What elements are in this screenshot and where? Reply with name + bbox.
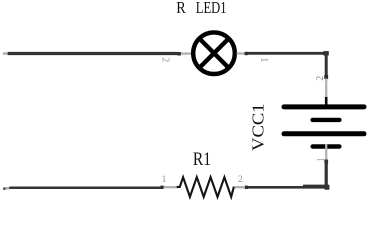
- battery short plate 2: [313, 144, 340, 148]
- svg-text:VCC1: VCC1: [249, 103, 268, 151]
- wire endpoint blob at lamp pin 2: [177, 52, 181, 56]
- wire endpoint blob at battery pin 1: [324, 160, 328, 164]
- resistor R1 pin 2 stub: [233, 186, 246, 188]
- svg-text:2: 2: [315, 76, 326, 81]
- battery VCC1 long plate 1: [284, 104, 364, 109]
- wire: bottom net, right horizontal segment: [247, 186, 328, 189]
- lamp X stroke B: [199, 39, 228, 68]
- wire: vertical down to battery plus: [325, 53, 328, 79]
- lamp pin 2 stub: [181, 52, 192, 54]
- wire: top net, left horizontal segment: [8, 52, 178, 55]
- wire endpoint blob at battery pin 2: [324, 75, 328, 79]
- wire: bottom net, left end gray stub: [5, 187, 10, 190]
- svg-text:2: 2: [238, 175, 243, 185]
- battery short plate 1: [313, 118, 340, 122]
- resistor R1 zigzag body: [177, 177, 234, 197]
- wire endpoint blob at resistor pin 1: [160, 186, 163, 189]
- battery long plate 2: [284, 131, 364, 136]
- lamp X stroke A: [199, 39, 228, 68]
- battery pin 1 stub: [325, 144, 327, 160]
- junction: bottom-right corner: [325, 185, 330, 190]
- wire endpoint blob at resistor pin 2: [245, 186, 248, 189]
- resistor R1 pin 1 stub: [163, 186, 178, 188]
- wire endpoint blob left of segment: [245, 52, 248, 55]
- wire: top net, right horizontal segment: [245, 52, 328, 55]
- svg-text:2: 2: [160, 57, 171, 62]
- svg-text:1: 1: [162, 175, 167, 185]
- svg-text:LED1: LED1: [196, 0, 227, 17]
- wire: bottom net, left horizontal segment: [9, 186, 161, 189]
- battery symbol stub line into top plate: [325, 97, 328, 106]
- wire: vertical from battery minus: [325, 160, 328, 189]
- lamp circle: [193, 32, 235, 74]
- wire: bottom net, thick overlay near corner: [303, 185, 329, 189]
- svg-text:R: R: [176, 0, 186, 17]
- svg-text:R1: R1: [193, 148, 211, 169]
- battery pin 2 stub: [325, 79, 327, 98]
- wire: top net, left end gray stub: [3, 52, 8, 55]
- wire endpoint dot bottom-left: [3, 187, 5, 190]
- lamp pin 1 stub: [237, 52, 245, 54]
- svg-text:1: 1: [258, 57, 269, 62]
- junction: top-right corner: [323, 51, 328, 55]
